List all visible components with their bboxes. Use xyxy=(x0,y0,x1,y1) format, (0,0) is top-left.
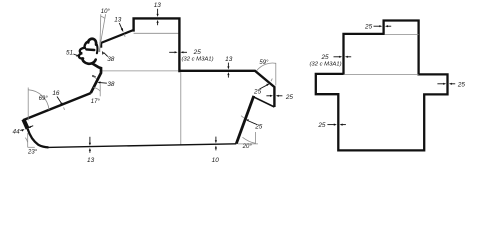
10 deg angle lines xyxy=(100,14,101,52)
dim 13 roof: leader xyxy=(119,23,122,30)
hidden deck line xyxy=(344,73,419,75)
17 deg arc xyxy=(94,87,101,91)
svg-text:59°: 59° xyxy=(259,60,269,66)
gun barrel dash xyxy=(86,48,94,51)
svg-text:13: 13 xyxy=(225,56,233,63)
glacis plate 16mm xyxy=(23,93,91,120)
dim 25 rear vertical plate xyxy=(266,95,270,97)
svg-text:25: 25 xyxy=(457,82,466,89)
svg-text:38: 38 xyxy=(107,56,115,63)
mantlet right edge xyxy=(96,45,99,54)
lower rear plate 25mm xyxy=(236,96,254,144)
hull top hidden line under superstructure box xyxy=(134,32,179,34)
svg-text:16: 16 xyxy=(52,90,60,97)
svg-text:25: 25 xyxy=(364,24,373,31)
svg-text:20°: 20° xyxy=(242,144,253,150)
svg-text:25: 25 xyxy=(253,88,262,95)
23 deg arc xyxy=(25,138,27,143)
svg-text:25: 25 xyxy=(317,122,326,129)
svg-text:13: 13 xyxy=(154,2,162,9)
hull bottom xyxy=(47,144,236,148)
10 deg arc xyxy=(101,16,105,18)
dim 13 turret top: arrows xyxy=(157,9,159,15)
23 deg angle line xyxy=(27,133,29,147)
cross-section outline xyxy=(316,21,448,151)
engine deck, upper rear plate, rear vertical plate xyxy=(179,71,274,107)
mantlet left lobe xyxy=(79,48,85,59)
dim 25 sponson right xyxy=(437,83,444,85)
svg-text:10°: 10° xyxy=(101,9,111,15)
svg-text:25: 25 xyxy=(254,123,263,130)
svg-text:25: 25 xyxy=(320,54,329,61)
svg-text:(32 с М3А1): (32 с М3А1) xyxy=(181,57,213,63)
20 deg arc xyxy=(243,137,256,143)
svg-text:25: 25 xyxy=(193,49,202,56)
20 deg vertical line xyxy=(255,132,257,144)
svg-text:13: 13 xyxy=(114,17,122,24)
svg-text:10: 10 xyxy=(212,157,220,164)
svg-text:13: 13 xyxy=(87,157,95,164)
svg-text:23°: 23° xyxy=(27,150,38,156)
bow curve xyxy=(28,129,49,148)
svg-text:(32 с М3А1): (32 с М3А1) xyxy=(309,61,341,67)
bulkhead hidden line xyxy=(180,72,182,144)
lower nose plate 44mm xyxy=(23,119,27,128)
23 deg baseline xyxy=(28,146,35,148)
17 deg angle line xyxy=(99,84,101,96)
sponson hidden line xyxy=(102,70,179,72)
svg-text:69°: 69° xyxy=(39,96,49,102)
mantlet stub under roof plate xyxy=(100,42,103,47)
weld tick on driver plate xyxy=(92,76,95,78)
mantlet bottom hook xyxy=(82,58,95,63)
dim 25 side arrows xyxy=(169,51,175,53)
svg-text:44: 44 xyxy=(13,129,21,136)
superstructure box (top plate, left step, right vertical) xyxy=(134,18,180,72)
svg-text:17°: 17° xyxy=(91,99,101,105)
69 deg arc xyxy=(29,90,50,110)
svg-text:25: 25 xyxy=(285,94,294,101)
20 deg angle baseline extension xyxy=(238,143,258,145)
svg-text:38: 38 xyxy=(107,81,115,88)
rear floor shelf xyxy=(254,97,274,107)
59 deg vertical line xyxy=(275,63,277,86)
gun mantlet top hook xyxy=(88,39,96,45)
svg-text:51: 51 xyxy=(66,50,74,57)
front step and driver plate 38mm xyxy=(91,64,101,94)
69 deg angle line xyxy=(27,88,29,121)
hidden line under cupola xyxy=(385,33,419,35)
59 deg arc xyxy=(257,63,276,70)
sloped roof plate 13mm xyxy=(101,30,134,43)
mantlet left ear xyxy=(85,42,89,47)
